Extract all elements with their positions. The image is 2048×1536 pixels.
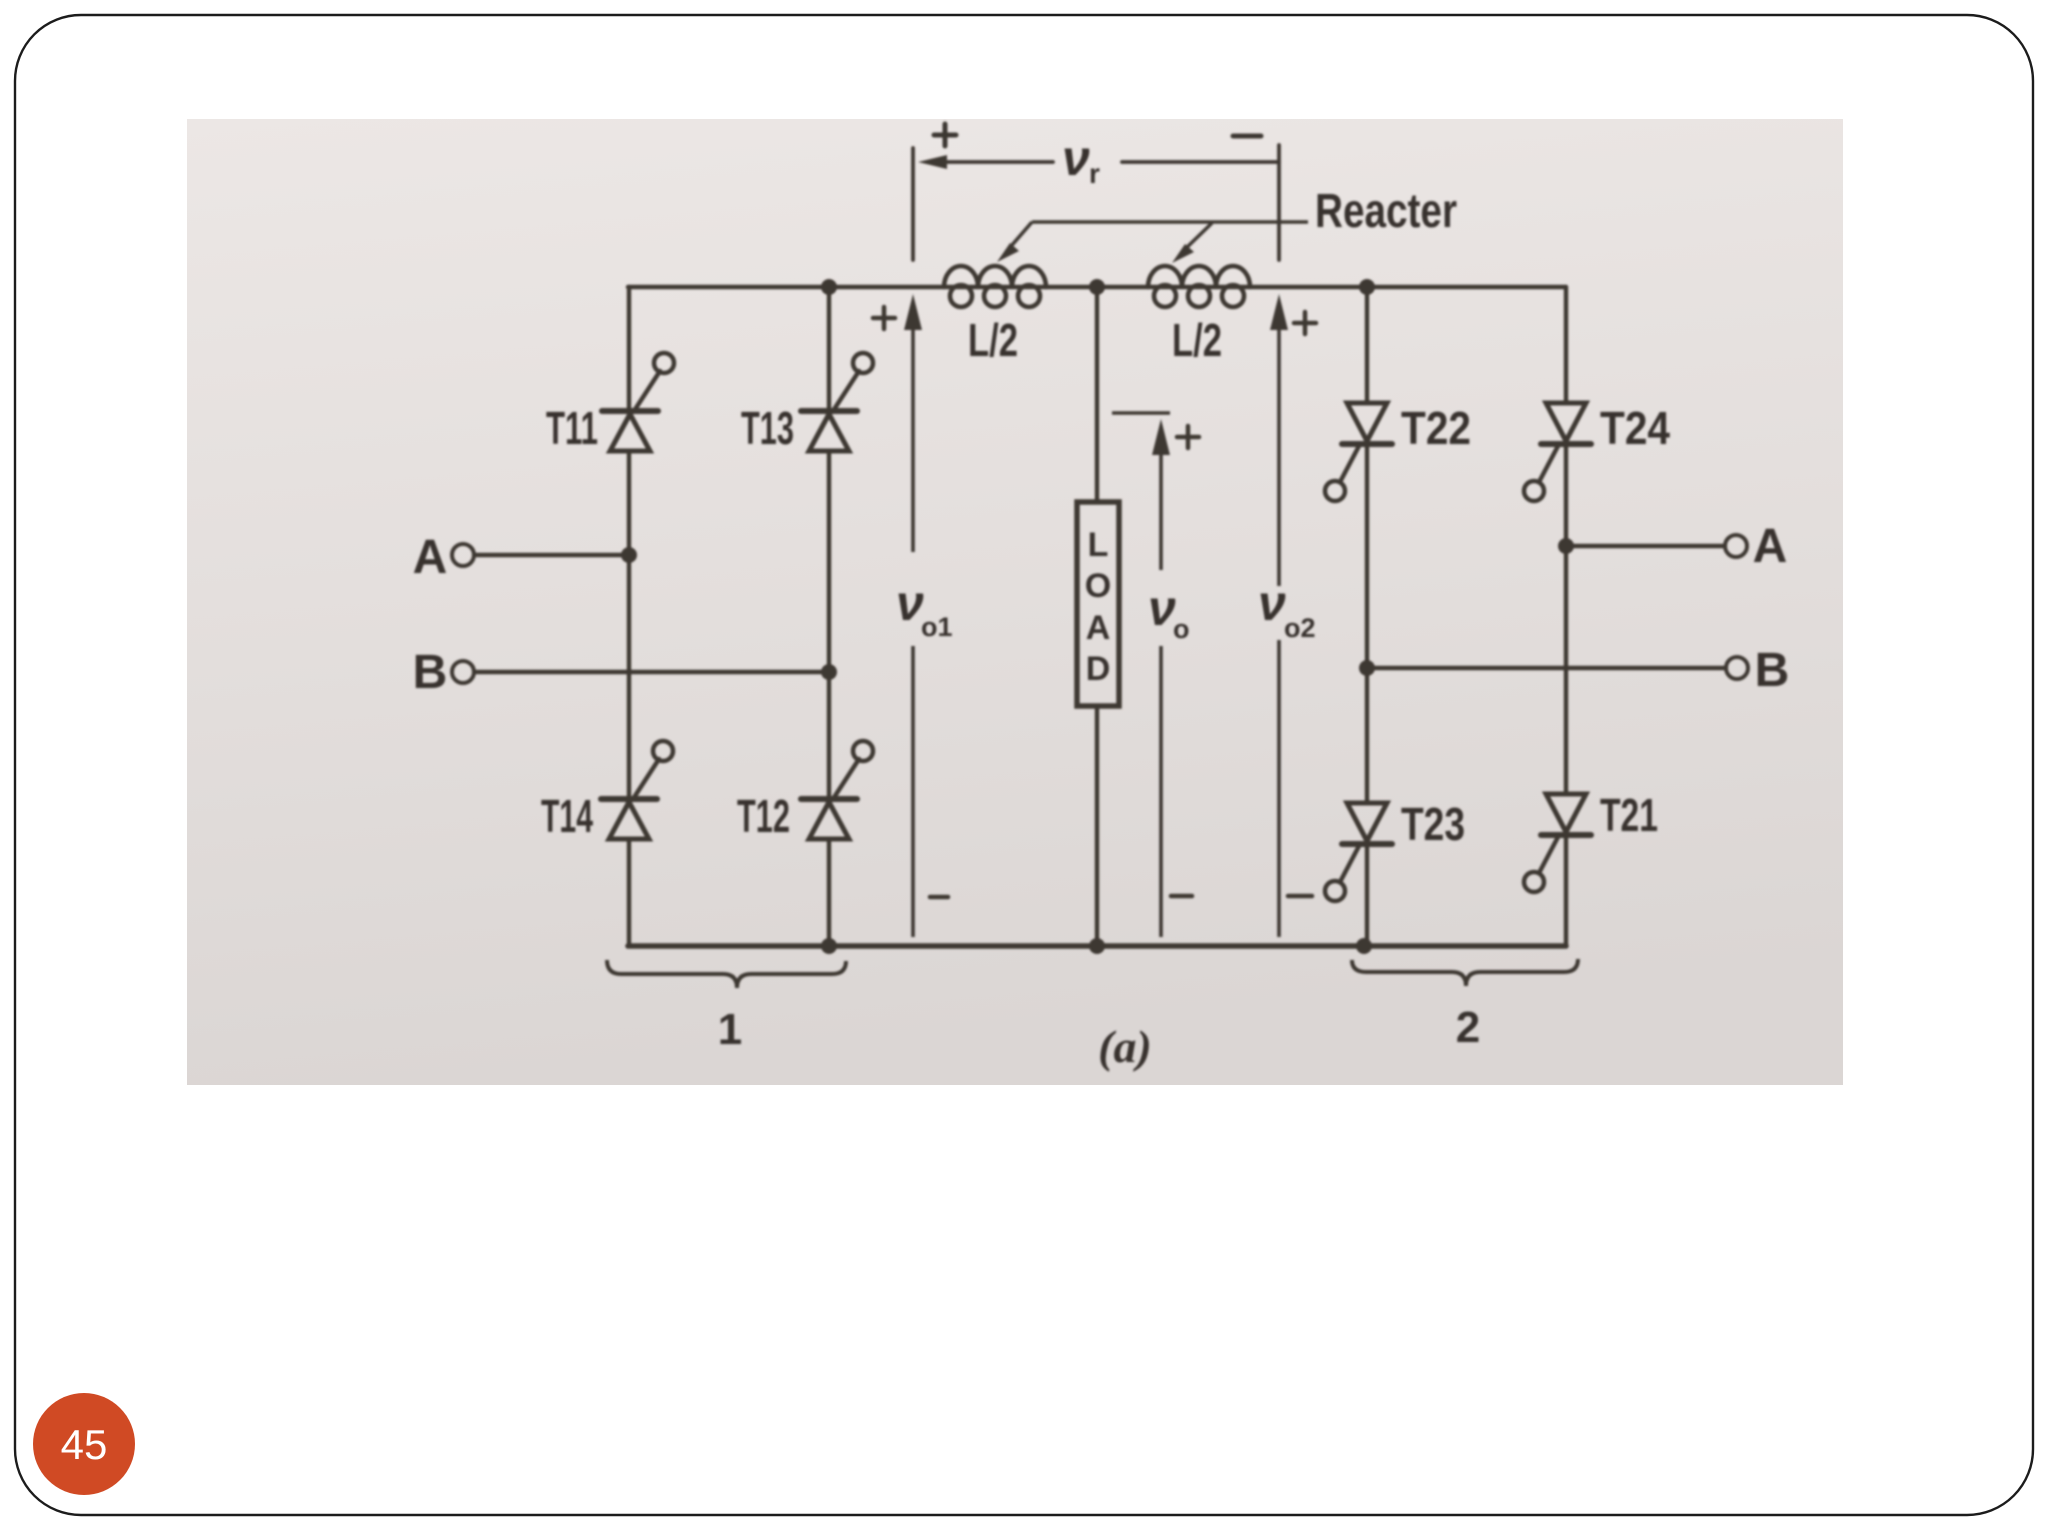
svg-text:A: A — [1753, 520, 1788, 573]
wire: converter-1 right leg — [827, 287, 831, 946]
svg-text:O: O — [1085, 567, 1111, 605]
svg-text:Reacter: Reacter — [1315, 185, 1457, 238]
svg-text:T14: T14 — [541, 790, 593, 842]
terminal A left circle — [452, 544, 474, 566]
node: bottom rail / load branch — [1089, 938, 1105, 954]
measurement arrow vo — [1112, 413, 1170, 937]
polarity minus (vo) — [1171, 894, 1192, 899]
node: top rail / T22 leg — [1359, 279, 1375, 295]
polarity minus (vo2) — [1288, 894, 1312, 899]
thyristor T22 — [1325, 402, 1471, 501]
svg-text:D: D — [1086, 650, 1111, 688]
thyristor T13 — [741, 353, 873, 454]
wire: top dc rail — [628, 285, 1566, 289]
svg-text:o2: o2 — [1284, 613, 1316, 643]
wire: converter-1 left leg — [627, 287, 631, 946]
svg-text:ν: ν — [1258, 575, 1286, 631]
thyristor T24 — [1524, 402, 1670, 501]
terminal A right circle — [1725, 535, 1747, 557]
node: A junction left bridge — [621, 547, 637, 563]
brace group 1 — [607, 960, 846, 1054]
wire: converter-2 left leg — [1365, 287, 1369, 946]
load box — [1077, 502, 1119, 706]
polarity minus (vr right) — [1233, 134, 1261, 139]
svg-text:T13: T13 — [741, 402, 794, 454]
svg-text:ν: ν — [1062, 130, 1090, 186]
polarity minus (vo1) — [930, 895, 948, 900]
wire: phase B lead-in left — [475, 670, 829, 674]
svg-text:T23: T23 — [1401, 798, 1465, 850]
node: top rail / reactor centre tap — [1089, 279, 1105, 295]
svg-text:T12: T12 — [737, 790, 790, 842]
terminal B right circle — [1726, 657, 1748, 679]
node: A junction right bridge — [1558, 538, 1574, 554]
svg-text:A: A — [1086, 609, 1111, 647]
svg-text:ν: ν — [896, 575, 924, 631]
svg-text:L: L — [1088, 526, 1109, 564]
svg-text:2: 2 — [1456, 1003, 1480, 1052]
svg-text:1: 1 — [718, 1005, 742, 1054]
thyristor T23 — [1325, 798, 1465, 901]
svg-text:T22: T22 — [1401, 402, 1471, 454]
terminal B left circle — [452, 661, 474, 683]
wire: bottom dc rail — [628, 943, 1566, 949]
svg-text:B: B — [413, 646, 448, 699]
svg-text:45: 45 — [61, 1421, 108, 1468]
wire: phase B lead-out right — [1367, 666, 1726, 670]
dimension vr: left tick, arrow, shafts, right tick — [913, 145, 1279, 260]
svg-text:r: r — [1089, 158, 1100, 189]
polarity plus (vr left) — [934, 124, 956, 146]
polarity plus (vo1) — [873, 307, 895, 329]
wire: converter-2 right leg — [1564, 287, 1568, 946]
measurement arrow vo1 — [911, 322, 915, 937]
node: bottom rail / T23 leg — [1356, 938, 1372, 954]
measurement arrow vo2 — [1277, 322, 1281, 937]
polarity plus (vo) — [1177, 426, 1199, 448]
svg-text:ν: ν — [1148, 580, 1176, 636]
svg-text:T24: T24 — [1600, 402, 1670, 454]
svg-text:A: A — [413, 531, 448, 584]
svg-text:L/2: L/2 — [968, 314, 1018, 366]
node: B junction right bridge — [1359, 660, 1375, 676]
svg-text:L/2: L/2 — [1172, 314, 1222, 366]
thyristor T21 — [1524, 789, 1658, 892]
inductor L/2 right half of reactor — [1148, 266, 1250, 307]
wire: phase A lead-out right — [1566, 544, 1725, 548]
page number badge — [33, 1393, 135, 1495]
svg-text:T11: T11 — [546, 402, 598, 454]
thyristor T12 — [737, 741, 873, 842]
svg-text:(a): (a) — [1098, 1021, 1152, 1072]
thyristor T11 — [546, 353, 674, 454]
label Reacter with leader — [997, 185, 1457, 263]
wire: load branch — [1095, 287, 1099, 946]
polarity plus (vo2) — [1294, 312, 1316, 334]
node: bottom rail / T12 leg — [821, 938, 837, 954]
node: top rail / T13 leg — [821, 279, 837, 295]
scanned figure background — [187, 119, 1843, 1085]
svg-text:o: o — [1173, 614, 1190, 644]
svg-text:o1: o1 — [921, 612, 953, 642]
svg-text:T21: T21 — [1600, 789, 1658, 841]
inductor L/2 left half of reactor — [944, 266, 1046, 307]
node: B junction left bridge — [821, 664, 837, 680]
wire: phase A lead-in left — [475, 553, 629, 557]
svg-text:B: B — [1755, 644, 1790, 697]
brace group 2 — [1352, 959, 1578, 1052]
thyristor T14 — [541, 741, 673, 842]
